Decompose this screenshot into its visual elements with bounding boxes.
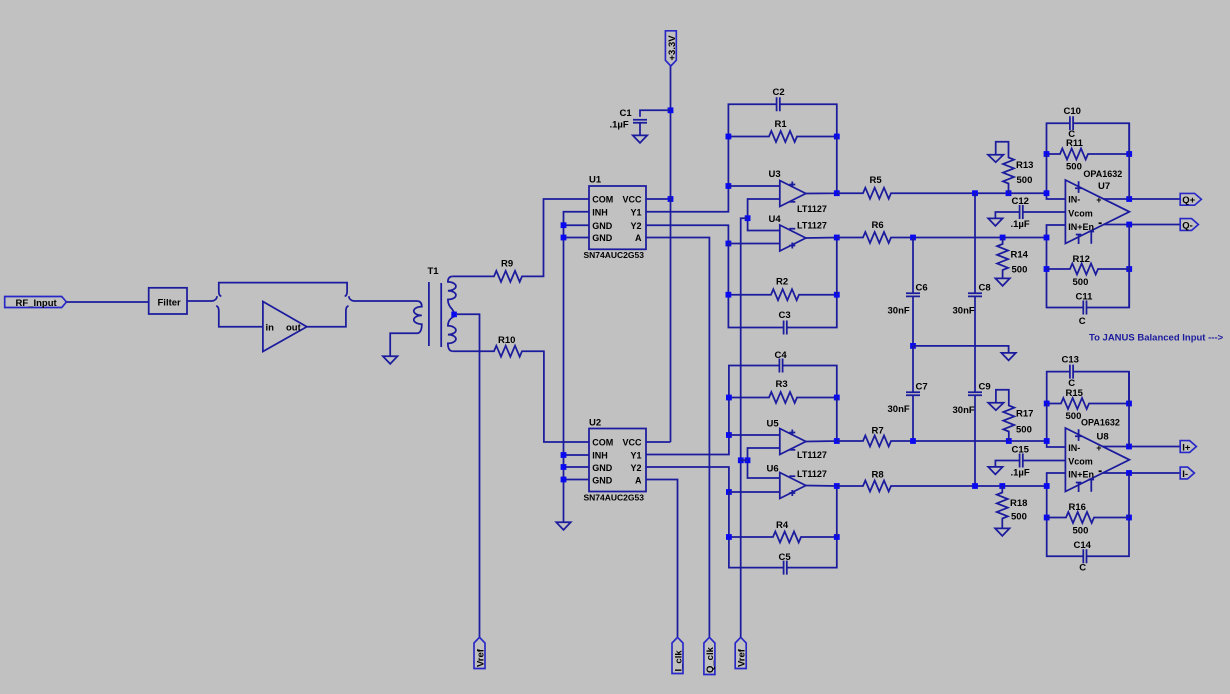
op-amp U6 LT1127 — [780, 473, 806, 499]
resistor R11 500 — [1047, 149, 1130, 160]
wire U8 right rail upper — [1128, 372, 1130, 447]
svg-text:.1µF: .1µF — [1011, 467, 1030, 478]
junction minus link lower right — [745, 457, 751, 463]
junction U3 output — [834, 190, 840, 196]
port RF_Input — [5, 297, 67, 308]
U5 plus mark — [789, 430, 795, 436]
svg-text:C: C — [1079, 563, 1086, 574]
svg-text:U2: U2 — [589, 418, 601, 429]
junction U1 GND2 — [561, 235, 567, 241]
port +3.3V — [665, 31, 676, 66]
amplifier U7 OPA1632 — [1065, 180, 1129, 244]
svg-text:I+: I+ — [1182, 442, 1191, 453]
svg-text:C3: C3 — [779, 310, 791, 321]
ground C15 — [988, 467, 1002, 475]
svg-text:500: 500 — [1016, 425, 1032, 436]
svg-text:.1µF: .1µF — [1011, 219, 1030, 230]
wire U8 IN- rail — [1047, 404, 1066, 448]
svg-text:C1: C1 — [620, 108, 633, 119]
U7 minus output mark — [1099, 222, 1102, 224]
svg-text:30nF: 30nF — [888, 306, 910, 317]
svg-text:IN-: IN- — [1068, 195, 1080, 205]
svg-text:SN74AUC2G53: SN74AUC2G53 — [584, 250, 645, 260]
svg-text:R17: R17 — [1016, 409, 1033, 420]
svg-text:R15: R15 — [1066, 388, 1084, 399]
ground below R18 — [995, 528, 1009, 536]
wire bypass top rail — [219, 283, 347, 297]
wire U1 Y2 to U4 plus — [646, 225, 728, 243]
junction C8 top — [972, 190, 978, 196]
svg-text:30nF: 30nF — [953, 405, 975, 416]
svg-text:+3.3V: +3.3V — [667, 35, 678, 61]
junction minus link upper — [745, 215, 751, 221]
svg-text:C7: C7 — [916, 382, 928, 393]
svg-text:GND: GND — [592, 475, 613, 485]
wire U4 output to R6 — [806, 238, 837, 295]
resistor R4 — [729, 532, 837, 543]
junction Q- — [1126, 222, 1132, 228]
capacitor C15 .1uF with ground — [995, 454, 1065, 468]
svg-text:IN+En: IN+En — [1068, 470, 1094, 480]
junction U4 output — [834, 235, 840, 241]
svg-text:R6: R6 — [872, 220, 884, 231]
resistor R1 — [728, 131, 836, 142]
amplifier in/out — [263, 302, 307, 352]
T1 secondary winding bottom — [448, 317, 456, 352]
op-amp U3 LT1127 — [780, 181, 806, 207]
IC U1 SN74AUC2G53 — [589, 186, 646, 249]
svg-text:R1: R1 — [775, 119, 788, 130]
svg-text:U7: U7 — [1098, 181, 1110, 192]
ground below R14 — [995, 278, 1009, 286]
svg-text:R10: R10 — [498, 335, 515, 346]
wire U4 minus input — [748, 218, 780, 230]
svg-text:A: A — [635, 233, 642, 243]
wire U6 output to R8 — [806, 486, 837, 538]
svg-text:Y2: Y2 — [630, 463, 641, 473]
svg-text:C12: C12 — [1012, 196, 1029, 207]
junction U6 plus node — [726, 489, 732, 495]
svg-text:U3: U3 — [769, 169, 781, 180]
wire U2 Y1 to U5 plus rail — [646, 435, 729, 455]
capacitor C3 — [784, 321, 787, 335]
svg-text:R16: R16 — [1069, 502, 1086, 513]
power +3.3V vertical rail — [670, 66, 672, 442]
svg-text:Y1: Y1 — [630, 451, 641, 461]
junction R12 left — [1044, 266, 1050, 272]
svg-text:IN-: IN- — [1068, 443, 1080, 453]
svg-text:Y1: Y1 — [630, 207, 641, 217]
wire U7 right rail upper — [1128, 123, 1130, 199]
U7 enable stubs — [1076, 232, 1094, 245]
junction R4 left — [726, 534, 732, 540]
svg-text:U6: U6 — [767, 464, 779, 475]
capacitor C5 — [784, 561, 787, 575]
junction C1 tap — [668, 107, 674, 113]
amplifier U8 OPA1632 — [1065, 428, 1129, 492]
ground below T1 primary — [383, 356, 397, 364]
svg-text:R14: R14 — [1011, 250, 1029, 261]
capacitor C13 — [1070, 365, 1073, 379]
wire U8 right rail lower — [1128, 473, 1130, 518]
svg-text:LT1127: LT1127 — [797, 450, 827, 460]
junction R12 right — [1126, 266, 1132, 272]
junction R4 right — [834, 534, 840, 540]
wire mid ground — [913, 346, 1009, 353]
svg-text:U5: U5 — [767, 419, 780, 430]
junction C7 bottom — [910, 438, 916, 444]
junction I+ — [1126, 444, 1132, 450]
junction R16 right — [1126, 515, 1132, 521]
resistor R9 — [453, 199, 589, 282]
svg-text:R8: R8 — [872, 470, 884, 481]
junction R1 left — [726, 134, 732, 140]
junction U8 IN- node — [1044, 438, 1050, 444]
resistor R10 — [453, 346, 589, 442]
svg-text:Q+: Q+ — [1182, 195, 1195, 206]
junction R15 left — [1044, 401, 1050, 407]
wire center tap to Vref — [457, 314, 480, 637]
svg-text:Y2: Y2 — [630, 221, 641, 231]
resistor R17 500 — [996, 390, 1014, 441]
svg-text:in: in — [266, 323, 275, 334]
wire U8 top rail — [1047, 372, 1129, 404]
wire U4 plus input — [728, 243, 779, 245]
resistor R15 500 — [1047, 398, 1129, 409]
svg-text:C11: C11 — [1076, 292, 1094, 303]
junction R15 right — [1126, 401, 1132, 407]
svg-text:LT1127: LT1127 — [797, 204, 827, 214]
resistor R8 — [837, 481, 1047, 492]
capacitor C9 30nF — [968, 392, 982, 486]
U4 plus mark — [789, 243, 795, 249]
svg-text:A: A — [635, 475, 642, 485]
svg-text:R18: R18 — [1010, 498, 1027, 509]
capacitor C6 30nF — [906, 238, 920, 346]
port Vref bottom left — [474, 637, 485, 668]
svg-text:C4: C4 — [775, 350, 788, 361]
capacitor C12 .1uF with ground — [995, 205, 1065, 219]
svg-text:C2: C2 — [773, 87, 785, 98]
U8 enable stubs — [1076, 480, 1094, 493]
wire amp output branch — [307, 306, 349, 327]
svg-text:R4: R4 — [776, 520, 789, 531]
svg-text:VCC: VCC — [622, 195, 642, 205]
junction R1 right — [834, 134, 840, 140]
wire Vref bus — [741, 218, 748, 637]
svg-text:+: + — [1096, 443, 1101, 453]
svg-text:R9: R9 — [501, 259, 513, 270]
wire U7 IN- rail — [1047, 154, 1066, 199]
junction R14 top — [1000, 235, 1006, 241]
svg-text:500: 500 — [1017, 175, 1033, 186]
capacitor C7 30nF — [906, 346, 920, 441]
svg-text:COM: COM — [592, 195, 613, 205]
wire jumper right arc — [349, 296, 417, 301]
junction U1 GND1 — [561, 222, 567, 228]
T1 secondary winding top — [448, 276, 456, 312]
svg-text:.1µF: .1µF — [610, 119, 629, 130]
T1 primary winding — [390, 301, 422, 356]
wire U5 minus input — [748, 448, 780, 460]
op-amp U4 LT1127 — [780, 225, 806, 251]
ground C12 — [988, 218, 1002, 226]
resistor R13 500 — [996, 142, 1014, 193]
U5 minus mark — [789, 449, 795, 451]
U8 minus output mark — [1099, 470, 1102, 472]
resistor R12 500 — [1047, 264, 1130, 275]
svg-text:out: out — [286, 323, 302, 334]
svg-text:Q_clk: Q_clk — [705, 646, 716, 673]
junction U2 GND1 — [561, 464, 567, 470]
svg-text:I_clk: I_clk — [673, 650, 684, 672]
junction I- — [1126, 470, 1132, 476]
capacitor C8 30nF — [968, 193, 982, 392]
U7 top dagger mark — [1075, 181, 1082, 193]
svg-text:To JANUS Balanced Input --->: To JANUS Balanced Input ---> — [1089, 333, 1224, 344]
svg-text:COM: COM — [592, 438, 613, 448]
svg-text:C13: C13 — [1062, 355, 1079, 366]
svg-text:C6: C6 — [916, 283, 928, 294]
wire U8 output minus to I- — [1103, 472, 1180, 474]
svg-text:R12: R12 — [1073, 254, 1090, 265]
svg-text:500: 500 — [1073, 526, 1089, 537]
capacitor C4 — [779, 359, 782, 373]
resistor R14 500 — [997, 238, 1008, 278]
U8 top dagger mark — [1075, 429, 1082, 441]
resistor R3 — [729, 392, 837, 403]
svg-text:R11: R11 — [1066, 138, 1084, 149]
resistor R5 — [837, 188, 1047, 199]
svg-text:LT1127: LT1127 — [797, 469, 827, 479]
svg-text:GND: GND — [592, 233, 613, 243]
U3 plus mark — [789, 182, 795, 188]
U6 minus mark — [789, 475, 795, 477]
wire minus link lower — [741, 459, 748, 461]
wire U6 plus input — [729, 491, 780, 493]
svg-text:LT1127: LT1127 — [797, 221, 827, 231]
ground below U2 — [556, 522, 570, 530]
svg-text:500: 500 — [1066, 411, 1082, 422]
ground mid — [1001, 353, 1015, 361]
IC U2 SN74AUC2G53 — [589, 429, 646, 492]
wire U2 Y2 to U6 plus — [646, 467, 729, 492]
junction U5 output — [834, 438, 840, 444]
wire U7 IN+ rail — [1047, 225, 1130, 308]
capacitor C10 — [1070, 116, 1073, 130]
junction R2 left — [726, 292, 732, 298]
svg-text:OPA1632: OPA1632 — [1083, 169, 1122, 179]
svg-text:INH: INH — [592, 207, 608, 217]
wire U2 A to I_clk — [646, 480, 678, 638]
U4 minus mark — [789, 228, 795, 230]
junction R11 right — [1126, 151, 1132, 157]
wire U1 INH/GND bus to ground — [564, 212, 590, 523]
svg-text:R3: R3 — [776, 379, 788, 390]
capacitor C2 — [777, 97, 780, 111]
op-amp U5 LT1127 — [780, 429, 806, 455]
capacitor C14 — [1083, 549, 1086, 563]
wire amp input branch — [216, 306, 263, 327]
junction R13 bottom — [1006, 190, 1012, 196]
svg-text:RF_Input: RF_Input — [16, 298, 58, 309]
svg-text:R13: R13 — [1016, 160, 1033, 171]
svg-text:+: + — [1096, 195, 1101, 205]
ground flag above R17 — [988, 403, 1003, 410]
port Q- — [1180, 219, 1198, 231]
junction T1 center tap — [451, 312, 457, 318]
capacitor C11 — [1083, 301, 1086, 315]
wire U3 plus input — [728, 185, 779, 187]
svg-text:30nF: 30nF — [953, 306, 975, 317]
svg-text:Filter: Filter — [158, 297, 182, 308]
junction minus link lower left — [738, 457, 744, 463]
block Filter — [149, 288, 187, 314]
junction R17 bottom — [1006, 438, 1012, 444]
junction R3 left — [726, 395, 732, 401]
ground below C1 — [633, 135, 647, 143]
wire U7 output minus to Q- — [1104, 224, 1180, 226]
svg-text:C15: C15 — [1012, 445, 1030, 456]
wire U1 VCC to +3.3V rail — [646, 198, 671, 200]
svg-text:Vcom: Vcom — [1068, 457, 1093, 467]
junction C9 bottom — [972, 483, 978, 489]
svg-text:C9: C9 — [979, 382, 991, 393]
svg-text:U1: U1 — [589, 175, 602, 186]
junction R11 left — [1044, 151, 1050, 157]
junction U7 IN+ node — [1044, 235, 1050, 241]
svg-text:T1: T1 — [428, 266, 440, 277]
svg-text:C5: C5 — [779, 552, 792, 563]
wire Q filter left rail lower — [728, 244, 836, 328]
junction U7 IN- node — [1044, 190, 1050, 196]
wire RF_Input to Filter — [66, 301, 148, 303]
resistor R6 — [837, 232, 1047, 243]
capacitor C1 .1uF — [633, 110, 671, 135]
wire U6 minus input — [748, 460, 780, 478]
junction R3 right — [834, 395, 840, 401]
port Q_clk — [704, 637, 715, 674]
ground flag above R13 — [988, 155, 1003, 162]
wire I filter left rail upper — [729, 366, 837, 436]
svg-text:C8: C8 — [979, 283, 991, 294]
port I+ — [1180, 441, 1196, 453]
wire U1 A to Q_clk — [646, 238, 709, 638]
junction U1 VCC — [668, 196, 674, 202]
svg-text:C14: C14 — [1074, 540, 1092, 551]
wire U2 INH/GND to bus — [564, 455, 590, 480]
svg-text:30nF: 30nF — [888, 404, 910, 415]
svg-text:R5: R5 — [870, 175, 883, 186]
wire U2 VCC — [646, 441, 671, 443]
junction C6 C7 mid — [910, 343, 916, 349]
junction R18 top — [999, 483, 1005, 489]
wire U7 output plus to Q+ — [1104, 198, 1180, 200]
junction R16 left — [1044, 515, 1050, 521]
svg-text:U8: U8 — [1097, 431, 1109, 442]
port I- — [1180, 467, 1194, 479]
junction U8 IN+ node — [1044, 483, 1050, 489]
junction Q+ — [1126, 196, 1132, 202]
svg-text:INH: INH — [592, 451, 608, 461]
svg-text:Vref: Vref — [737, 648, 748, 667]
wire U7 top rail — [1047, 123, 1130, 154]
wire U3 minus input — [748, 199, 780, 218]
svg-text:I-: I- — [1182, 469, 1188, 480]
resistor R18 500 — [997, 486, 1008, 528]
svg-text:Q-: Q- — [1182, 220, 1193, 231]
svg-text:R2: R2 — [776, 276, 788, 287]
svg-text:SN74AUC2G53: SN74AUC2G53 — [584, 493, 645, 503]
svg-text:Vref: Vref — [475, 648, 486, 667]
wire Filter to jumper — [187, 296, 217, 301]
junction C6 top — [910, 235, 916, 241]
junction U6 output — [834, 483, 840, 489]
wire U5 output to R7 — [806, 398, 837, 442]
U3 minus mark — [789, 201, 795, 203]
port I_clk — [672, 637, 683, 673]
svg-text:500: 500 — [1011, 512, 1027, 523]
wire U7 right rail lower — [1128, 225, 1130, 308]
junction R2 right — [834, 292, 840, 298]
svg-text:C: C — [1079, 316, 1086, 327]
resistor R7 — [837, 436, 1047, 447]
resistor R16 500 — [1047, 512, 1129, 523]
svg-text:GND: GND — [592, 463, 613, 473]
wire U8 output plus to I+ — [1103, 446, 1180, 448]
port Vref bottom right — [735, 637, 746, 668]
svg-text:VCC: VCC — [622, 438, 642, 448]
junction U2 INH — [561, 452, 567, 458]
wire U3 output to R5 — [806, 137, 837, 194]
junction U2 GND2 — [561, 477, 567, 483]
svg-text:C10: C10 — [1064, 106, 1081, 117]
svg-text:500: 500 — [1066, 162, 1082, 173]
port Q+ — [1180, 193, 1201, 205]
wire U8 IN+ rail — [1047, 473, 1129, 556]
svg-text:GND: GND — [592, 221, 613, 231]
wire U5 plus input — [729, 434, 780, 436]
svg-text:500: 500 — [1012, 265, 1028, 276]
svg-text:U4: U4 — [769, 214, 782, 225]
svg-text:Vcom: Vcom — [1068, 209, 1093, 219]
U6 plus mark — [789, 490, 795, 496]
T1 core — [429, 282, 441, 347]
wire I filter left rail lower — [729, 492, 837, 568]
junction U3 plus node — [726, 183, 732, 189]
resistor R2 — [728, 289, 836, 300]
junction U5 plus node — [726, 432, 732, 438]
wire Q filter left rail upper — [728, 104, 836, 186]
junction U4 plus node — [726, 241, 732, 247]
svg-text:OPA1632: OPA1632 — [1081, 417, 1120, 427]
svg-text:R7: R7 — [872, 426, 884, 437]
wire U1 Y1 to U3 plus rail — [646, 186, 728, 212]
svg-text:500: 500 — [1073, 277, 1089, 288]
